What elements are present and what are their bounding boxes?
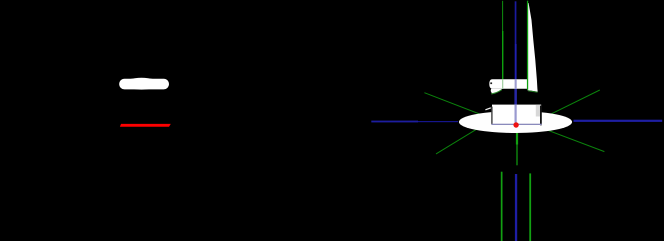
capsule center bulge [124, 78, 159, 90]
blade wedge [527, 3, 537, 92]
green vertical down ray (lower thin part) [516, 145, 517, 166]
bottom green vertical right [529, 173, 531, 241]
base box left edge [491, 107, 492, 125]
nacelle nose notch [490, 82, 492, 84]
left rotor disc edge (red parallelogram) [120, 124, 171, 127]
bottom blue vertical [515, 174, 517, 241]
tower segment (nacelle to box, thick navy) [514, 89, 517, 105]
nacelle bar [489, 79, 527, 88]
blue horizontal axis right segment [574, 120, 663, 122]
green edge under lobe [491, 90, 501, 94]
bottom green vertical left [501, 172, 503, 241]
base box right inner shading [536, 105, 540, 117]
blue horizontal axis left segment [371, 121, 418, 123]
base box [492, 105, 541, 125]
green diagonal SW [436, 120, 492, 154]
green vertical down ray (upper wide part) [516, 122, 518, 145]
lavender tower vertical in box [515, 105, 517, 124]
green diagonal SE [540, 127, 604, 151]
pale lavender line over nacelle [515, 79, 517, 89]
top blue vertical (above nacelle) [515, 1, 517, 79]
left turbine nacelle capsule [119, 79, 169, 90]
pale green line over nacelle [502, 79, 503, 89]
ground ellipse [459, 111, 572, 133]
green diagonal NW [424, 93, 490, 118]
blade tip dash left of box [485, 107, 491, 110]
nacelle lower-left lobe [491, 89, 502, 94]
green diagonal NE [540, 90, 600, 119]
blade bottom green edge [528, 91, 538, 92]
top green vertical left [501, 1, 504, 80]
red hub dot [513, 122, 518, 127]
base box bottom lavender edge [492, 124, 542, 125]
base box right edge [540, 106, 542, 126]
top green vertical right (blade leading edge) [527, 1, 528, 90]
